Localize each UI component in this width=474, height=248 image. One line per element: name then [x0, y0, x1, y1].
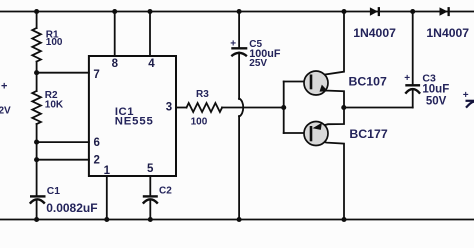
svg-text:1N4007: 1N4007 [426, 26, 469, 40]
svg-text:+: + [230, 39, 236, 50]
svg-text:C1: C1 [47, 186, 60, 197]
svg-text:R3: R3 [196, 89, 209, 100]
svg-text:1: 1 [104, 165, 111, 177]
svg-text:2V: 2V [0, 106, 11, 117]
svg-text:3: 3 [166, 101, 172, 113]
svg-text:50V: 50V [426, 95, 447, 107]
svg-text:100: 100 [191, 117, 208, 128]
svg-text:NE555: NE555 [115, 115, 154, 127]
svg-text:8: 8 [112, 58, 119, 70]
svg-text:100: 100 [46, 37, 63, 48]
svg-text:+: + [1, 81, 7, 93]
svg-text:C2: C2 [159, 186, 172, 197]
svg-text:6: 6 [94, 137, 100, 149]
svg-text:BC177: BC177 [349, 127, 387, 141]
svg-text:+: + [404, 73, 410, 84]
svg-text:+: + [463, 90, 469, 101]
svg-text:10K: 10K [45, 99, 64, 110]
svg-text:10uF: 10uF [422, 84, 449, 96]
svg-text:BC107: BC107 [349, 75, 387, 89]
svg-text:0.0082uF: 0.0082uF [46, 201, 97, 215]
svg-text:1N4007: 1N4007 [353, 26, 396, 40]
svg-text:25V: 25V [249, 58, 267, 69]
svg-text:7: 7 [93, 69, 99, 81]
svg-text:4: 4 [148, 58, 155, 70]
svg-text:5: 5 [147, 163, 154, 175]
svg-text:2: 2 [94, 154, 100, 166]
